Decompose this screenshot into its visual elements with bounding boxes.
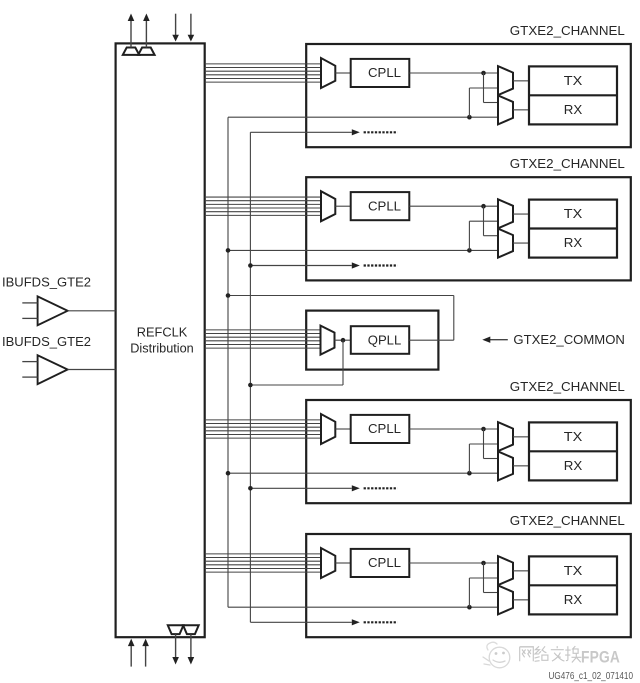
svg-text:REFCLK: REFCLK [137, 326, 188, 340]
svg-text:CPLL: CPLL [368, 199, 401, 213]
svg-text:TX: TX [564, 564, 583, 578]
svg-text:TX: TX [564, 430, 583, 444]
svg-text:IBUFDS_GTE2: IBUFDS_GTE2 [2, 335, 91, 349]
svg-text:GTXE2_CHANNEL: GTXE2_CHANNEL [510, 24, 625, 38]
svg-text:FPGA: FPGA [581, 647, 620, 666]
svg-text:CPLL: CPLL [368, 66, 401, 80]
svg-text:GTXE2_COMMON: GTXE2_COMMON [513, 333, 625, 347]
svg-text:QPLL: QPLL [368, 333, 402, 347]
svg-text:TX: TX [564, 74, 583, 88]
svg-text:RX: RX [564, 236, 583, 250]
svg-text:CPLL: CPLL [368, 556, 401, 570]
svg-text:RX: RX [564, 593, 583, 607]
svg-text:TX: TX [564, 207, 583, 221]
svg-text:CPLL: CPLL [368, 422, 401, 436]
svg-text:GTXE2_CHANNEL: GTXE2_CHANNEL [510, 380, 625, 394]
svg-text:Distribution: Distribution [130, 342, 194, 356]
svg-text:UG476_c1_02_071410: UG476_c1_02_071410 [549, 671, 634, 682]
svg-text:RX: RX [564, 459, 583, 473]
svg-text:IBUFDS_GTE2: IBUFDS_GTE2 [2, 275, 91, 289]
svg-text:RX: RX [564, 103, 583, 117]
svg-text:GTXE2_CHANNEL: GTXE2_CHANNEL [510, 514, 625, 528]
svg-text:GTXE2_CHANNEL: GTXE2_CHANNEL [510, 157, 625, 171]
